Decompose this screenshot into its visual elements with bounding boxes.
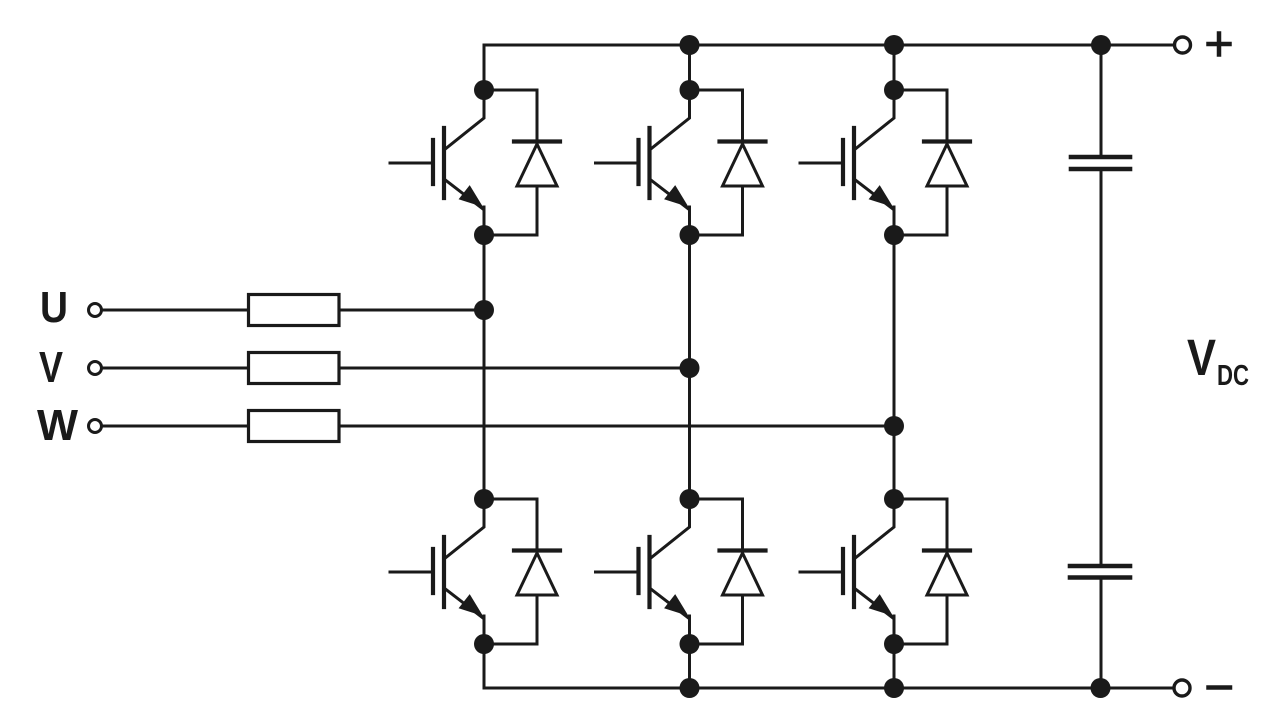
diode D2 (freewheeling, antiparallel) (484, 499, 560, 644)
wire: phase V to leg midpoint (339, 367, 690, 370)
diode D1 (freewheeling, antiparallel) (484, 90, 560, 235)
wire: phase U to leg midpoint (339, 309, 484, 312)
diode D4 (freewheeling, antiparallel) (690, 499, 766, 644)
resistor RV (line inductor/resistor) (249, 353, 340, 384)
transistor Q6 (W low-side) (IGBT) (800, 499, 894, 644)
wire: phase W input lead (103, 425, 248, 428)
resistor RU (line inductor/resistor) (249, 295, 340, 326)
node A3 (collector junction) (474, 489, 494, 509)
diode D5 (freewheeling, antiparallel) (894, 90, 970, 235)
node B4 (emitter junction) (680, 634, 700, 654)
node A1 (collector junction) (474, 80, 494, 100)
terminal: DC+ output (open circle) (1175, 37, 1191, 53)
node: junction V leg / + bus (680, 35, 700, 55)
wire: phase leg U midpoint rail (483, 235, 486, 499)
node: junction DC-link / - bus (1091, 678, 1111, 698)
label: VDC (DC-link voltage) (1187, 329, 1249, 392)
node C3 (collector junction) (884, 489, 904, 509)
svg-text:U: U (40, 283, 68, 332)
diode D3 (freewheeling, antiparallel) (690, 90, 766, 235)
node B1 (collector junction) (680, 80, 700, 100)
terminal: DC- output (open circle) (1174, 680, 1190, 696)
node C2 (emitter junction) (884, 225, 904, 245)
node C1 (collector junction) (884, 80, 904, 100)
transistor Q1 (U high-side) (IGBT) (390, 90, 484, 235)
label: - (negative terminal) (1209, 685, 1231, 690)
transistor Q5 (W high-side) (IGBT) (800, 90, 894, 235)
wire: phase leg U top stub (483, 45, 486, 90)
label: + (positive terminal) (1209, 34, 1230, 55)
diode D6 (freewheeling, antiparallel) (894, 499, 970, 644)
svg-text:W: W (37, 401, 78, 450)
wire: phase leg W top stub (893, 45, 896, 90)
wire: DC-link from + bus to capacitor C1 (1100, 45, 1103, 157)
transistor Q3 (V high-side) (IGBT) (596, 90, 690, 235)
terminal: phase W input (open circle) (89, 420, 102, 433)
wire: DC-link from capacitor C2 to - bus (1100, 578, 1103, 689)
wire: negative DC bus (bottom rail) (484, 687, 1173, 690)
wire: DC-link between capacitors (1100, 169, 1103, 566)
wire: phase leg W bottom stub (893, 644, 896, 688)
node C4 (emitter junction) (884, 634, 904, 654)
node: junction W leg / + bus (884, 35, 904, 55)
svg-text:DC: DC (1217, 360, 1249, 392)
node: junction W leg / - bus (884, 678, 904, 698)
wire: phase W to leg midpoint (339, 425, 894, 428)
transistor Q4 (V low-side) (IGBT) (596, 499, 690, 644)
resistor RW (line inductor/resistor) (249, 411, 340, 442)
capacitor C1 (upper DC-link) (1071, 157, 1130, 169)
node: phase V midpoint junction (680, 358, 700, 378)
wire: phase leg W midpoint rail (893, 235, 896, 499)
transistor Q2 (U low-side) (IGBT) (390, 499, 484, 644)
terminal: phase U input (open circle) (89, 304, 102, 317)
node: phase W midpoint junction (884, 416, 904, 436)
node B2 (emitter junction) (680, 225, 700, 245)
svg-text:V: V (1187, 329, 1216, 386)
svg-text:V: V (39, 343, 64, 392)
wire: phase leg V top stub (688, 45, 691, 90)
wire: phase leg V midpoint rail (688, 235, 691, 499)
node: junction V leg / - bus (680, 678, 700, 698)
node: phase U midpoint junction (474, 300, 494, 320)
terminal: phase V input (open circle) (89, 362, 102, 375)
wire: phase leg V bottom stub (688, 644, 691, 688)
node A2 (emitter junction) (474, 225, 494, 245)
node B3 (collector junction) (680, 489, 700, 509)
wire: phase leg U bottom stub (483, 644, 486, 688)
wire: positive DC bus (top rail) (484, 44, 1173, 47)
node: junction DC-link / + bus (1091, 35, 1111, 55)
node A4 (emitter junction) (474, 634, 494, 654)
capacitor C2 (lower DC-link) (1070, 566, 1130, 578)
wire: phase U input lead (103, 309, 248, 312)
wire: phase V input lead (103, 367, 248, 370)
